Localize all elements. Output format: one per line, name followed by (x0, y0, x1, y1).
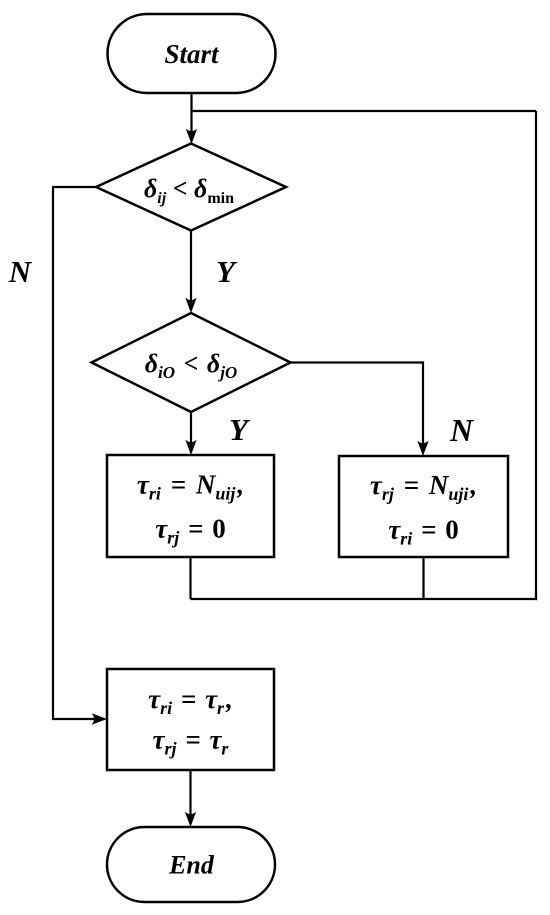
arrowhead into End (185, 812, 196, 827)
arrowhead into bottom box (92, 713, 107, 724)
arrowhead into left box (185, 440, 196, 455)
wire diamond1 left branch (53, 187, 103, 719)
wire diamond1 to diamond2 (190, 231, 192, 310)
wire merge horizontal bottom (191, 598, 538, 600)
decision diamond1 (96, 144, 286, 231)
terminator End (107, 827, 275, 902)
svg-text:τrj = 0: τrj = 0 (155, 514, 225, 548)
arrowhead into diamond2 (185, 298, 196, 313)
wire loop-back horizontal top (192, 110, 537, 112)
wire diamond2 right branch (291, 363, 424, 453)
wire diamond2 to left box (190, 412, 192, 451)
terminator Start (108, 14, 276, 93)
decision diamond2 (92, 313, 291, 412)
wire bottom box to End (189, 770, 191, 823)
svg-text:Y: Y (229, 412, 251, 447)
arrowhead into diamond1 (186, 129, 197, 144)
svg-text:Start: Start (164, 39, 220, 69)
svg-text:Y: Y (216, 254, 238, 289)
process left box (107, 455, 274, 557)
process right box (339, 456, 508, 557)
process bottom box (107, 669, 274, 770)
arrowhead into right box (417, 441, 428, 456)
wire right box to merge (422, 557, 424, 599)
svg-text:τri = 0: τri = 0 (388, 515, 458, 549)
svg-text:End: End (168, 851, 215, 880)
svg-text:N: N (8, 254, 33, 289)
wire left box to merge (189, 557, 191, 599)
svg-text:τrj = τr: τrj = τr (153, 725, 230, 759)
svg-text:N: N (449, 412, 475, 448)
wire Start to diamond1 (190, 93, 192, 140)
wire loop-back right vertical (535, 111, 537, 600)
